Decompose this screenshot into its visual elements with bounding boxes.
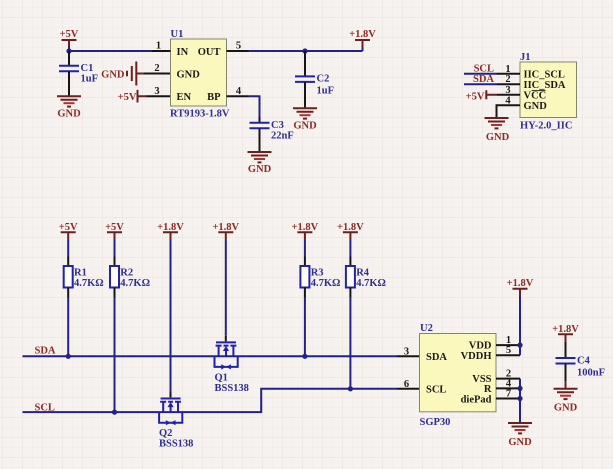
svg-text:BSS138: BSS138 bbox=[159, 439, 193, 450]
svg-text:4: 4 bbox=[505, 95, 511, 106]
svg-text:6: 6 bbox=[404, 379, 409, 390]
svg-text:Q1: Q1 bbox=[215, 372, 228, 383]
svg-text:diePad: diePad bbox=[461, 394, 492, 405]
svg-text:J1: J1 bbox=[520, 52, 531, 63]
svg-text:HY-2.0_IIC: HY-2.0_IIC bbox=[520, 121, 572, 132]
svg-text:VDD: VDD bbox=[469, 341, 492, 352]
svg-text:SCL: SCL bbox=[426, 385, 446, 396]
svg-text:4.7KΩ: 4.7KΩ bbox=[74, 278, 104, 289]
svg-text:GND: GND bbox=[486, 132, 510, 143]
svg-text:+5V: +5V bbox=[466, 92, 485, 103]
svg-text:1uF: 1uF bbox=[81, 74, 99, 85]
svg-text:R2: R2 bbox=[120, 268, 133, 279]
svg-text:3: 3 bbox=[154, 86, 159, 97]
svg-text:OUT: OUT bbox=[198, 47, 221, 58]
svg-text:+5V: +5V bbox=[105, 222, 124, 233]
svg-text:3: 3 bbox=[404, 346, 409, 357]
svg-text:R3: R3 bbox=[311, 268, 324, 279]
svg-text:SDA: SDA bbox=[35, 346, 56, 357]
svg-text:1: 1 bbox=[505, 64, 510, 75]
svg-text:BP: BP bbox=[207, 92, 221, 103]
svg-text:VCC: VCC bbox=[524, 90, 547, 101]
svg-text:+1.8V: +1.8V bbox=[157, 222, 184, 233]
svg-text:IIC_SDA: IIC_SDA bbox=[524, 80, 566, 91]
svg-text:1: 1 bbox=[156, 41, 161, 52]
svg-text:RT9193-1.8V: RT9193-1.8V bbox=[170, 108, 230, 119]
svg-text:4.7KΩ: 4.7KΩ bbox=[356, 278, 386, 289]
svg-text:GND: GND bbox=[101, 69, 125, 80]
svg-text:100nF: 100nF bbox=[577, 368, 605, 379]
svg-text:7: 7 bbox=[506, 389, 511, 400]
svg-text:+5V: +5V bbox=[118, 92, 137, 103]
svg-text:Q2: Q2 bbox=[159, 428, 172, 439]
svg-text:C4: C4 bbox=[577, 355, 591, 366]
svg-text:VDDH: VDDH bbox=[461, 351, 492, 362]
svg-text:+1.8V: +1.8V bbox=[552, 324, 579, 335]
svg-text:GND: GND bbox=[57, 108, 81, 119]
svg-text:C3: C3 bbox=[271, 120, 284, 131]
svg-text:3: 3 bbox=[505, 85, 510, 96]
svg-text:C1: C1 bbox=[81, 63, 94, 74]
svg-text:4.7KΩ: 4.7KΩ bbox=[120, 278, 150, 289]
svg-text:C2: C2 bbox=[317, 74, 330, 85]
svg-text:+1.8V: +1.8V bbox=[507, 278, 534, 289]
svg-text:R1: R1 bbox=[74, 268, 87, 279]
svg-text:GND: GND bbox=[508, 437, 532, 448]
svg-text:+1.8V: +1.8V bbox=[212, 222, 239, 233]
svg-text:U1: U1 bbox=[171, 29, 184, 40]
svg-text:R: R bbox=[484, 384, 492, 395]
svg-text:GND: GND bbox=[177, 69, 201, 80]
svg-text:1uF: 1uF bbox=[317, 86, 335, 97]
svg-text:EN: EN bbox=[177, 92, 192, 103]
svg-text:GND: GND bbox=[248, 164, 272, 175]
svg-text:IN: IN bbox=[177, 47, 189, 58]
svg-text:5: 5 bbox=[236, 41, 241, 52]
svg-text:GND: GND bbox=[524, 101, 548, 112]
svg-text:5: 5 bbox=[506, 345, 511, 356]
svg-text:2: 2 bbox=[505, 74, 510, 85]
svg-text:+1.8V: +1.8V bbox=[337, 222, 364, 233]
svg-text:+5V: +5V bbox=[60, 29, 79, 40]
svg-text:U2: U2 bbox=[420, 323, 433, 334]
svg-text:+1.8V: +1.8V bbox=[349, 29, 376, 40]
svg-text:SGP30: SGP30 bbox=[420, 417, 451, 428]
svg-text:GND: GND bbox=[554, 403, 578, 414]
svg-text:GND: GND bbox=[293, 120, 317, 131]
svg-text:BSS138: BSS138 bbox=[215, 383, 249, 394]
svg-text:4: 4 bbox=[236, 86, 242, 97]
svg-text:4.7KΩ: 4.7KΩ bbox=[311, 278, 341, 289]
svg-text:+1.8V: +1.8V bbox=[292, 222, 319, 233]
svg-text:2: 2 bbox=[154, 63, 159, 74]
svg-text:R4: R4 bbox=[356, 268, 370, 279]
svg-text:22nF: 22nF bbox=[271, 131, 294, 142]
svg-text:+5V: +5V bbox=[59, 222, 78, 233]
svg-text:IIC_SCL: IIC_SCL bbox=[524, 70, 565, 81]
svg-text:SDA: SDA bbox=[426, 352, 447, 363]
